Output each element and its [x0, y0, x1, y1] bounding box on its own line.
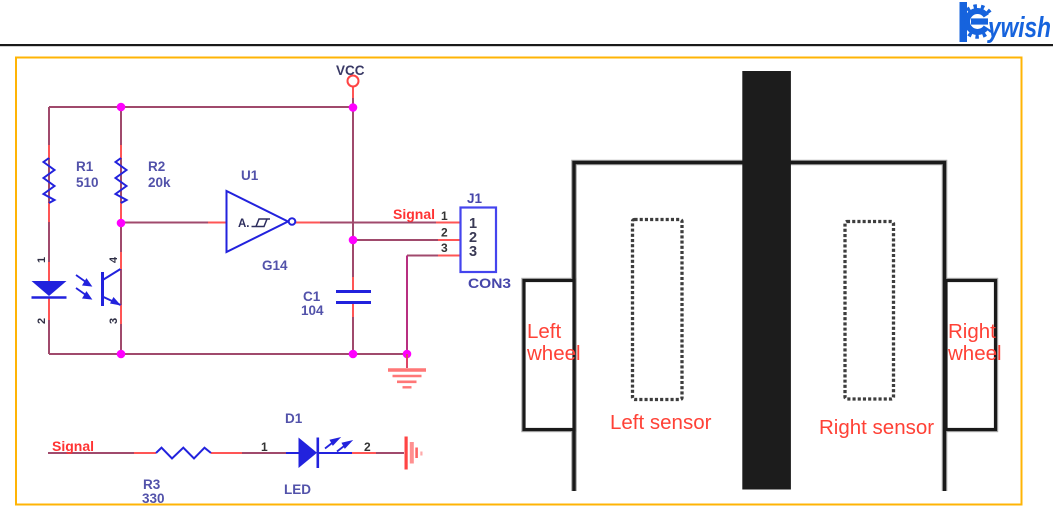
svg-text:3: 3: [108, 318, 120, 324]
svg-text:J1: J1: [467, 191, 483, 206]
svg-text:D1: D1: [285, 411, 303, 426]
svg-text:wheel: wheel: [526, 342, 581, 365]
svg-text:2: 2: [441, 226, 448, 240]
svg-text:2: 2: [36, 318, 48, 324]
svg-text:R2: R2: [148, 159, 165, 174]
svg-text:Signal: Signal: [52, 438, 94, 454]
svg-text:C1: C1: [303, 289, 321, 304]
svg-text:A.: A.: [238, 218, 250, 230]
svg-text:Left: Left: [527, 320, 561, 343]
svg-text:Right sensor: Right sensor: [819, 416, 934, 439]
svg-text:3: 3: [469, 244, 477, 260]
svg-text:1: 1: [261, 440, 268, 454]
svg-text:Signal: Signal: [393, 206, 435, 222]
svg-text:wheel: wheel: [947, 342, 1002, 365]
svg-text:Left sensor: Left sensor: [610, 411, 712, 434]
svg-text:104: 104: [301, 303, 324, 318]
svg-text:1: 1: [36, 257, 48, 263]
svg-text:LED: LED: [284, 482, 311, 497]
svg-text:G14: G14: [262, 258, 288, 273]
svg-text:1: 1: [441, 209, 448, 223]
svg-text:U1: U1: [241, 168, 259, 183]
svg-text:4: 4: [108, 256, 120, 263]
svg-text:3: 3: [441, 241, 448, 255]
svg-text:Right: Right: [948, 320, 996, 343]
svg-text:510: 510: [76, 175, 99, 190]
svg-text:R3: R3: [143, 477, 161, 492]
svg-text:ywish: ywish: [986, 12, 1051, 44]
svg-text:20k: 20k: [148, 175, 171, 190]
svg-text:330: 330: [142, 491, 165, 506]
svg-text:CON3: CON3: [468, 276, 512, 291]
svg-text:R1: R1: [76, 159, 94, 174]
svg-text:2: 2: [364, 440, 371, 454]
svg-text:VCC: VCC: [336, 63, 365, 78]
